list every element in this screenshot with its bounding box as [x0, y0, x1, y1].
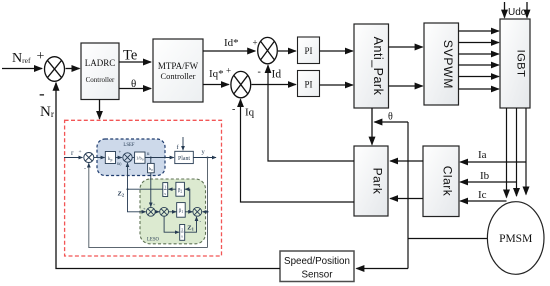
block b0: [148, 163, 155, 172]
wire PI2 to Anti_Park: [320, 84, 353, 86]
svg-text:Controller: Controller: [161, 71, 196, 81]
svg-text:Udc: Udc: [508, 7, 526, 18]
block Speed/Position Sensor: [280, 251, 354, 282]
svg-text:Nref: Nref: [12, 51, 31, 66]
wire L2 down to integrator z1: [164, 216, 179, 232]
wire summing junction C to PI2: [252, 84, 296, 86]
wire LADRC Te output to MTPA: [119, 61, 151, 63]
svg-text:+: +: [37, 49, 45, 64]
svg-text:Ia: Ia: [478, 149, 487, 161]
svg-text:-: -: [84, 166, 86, 172]
svg-text:r: r: [71, 148, 74, 157]
block Clark: [423, 146, 459, 217]
svg-text:Te: Te: [123, 48, 137, 64]
motor PMSM: [487, 202, 544, 275]
wire theta feedback arrow: [374, 121, 408, 123]
wire z2 from integrator to LSEF and L1: [128, 163, 163, 189]
wire A to LADRC: [66, 68, 80, 70]
summing junction L3: [193, 207, 202, 216]
block kp: [105, 152, 115, 164]
svg-text:PI: PI: [304, 80, 312, 90]
junction dot at y branch: [207, 157, 209, 159]
wire Udc right arrow into IGBT: [526, 2, 528, 18]
wire L1 to L2: [155, 211, 159, 213]
svg-text:SVPWM: SVPWM: [441, 40, 455, 89]
summing junction B: [258, 37, 278, 63]
wire Clark to Park lower: [390, 198, 423, 200]
wire into Speed/Position Sensor: [356, 268, 408, 270]
svg-text:Iq: Iq: [245, 107, 255, 119]
svg-text:Plant: Plant: [178, 156, 190, 162]
wire Clark to Park upper: [390, 160, 423, 162]
node Udc label: [508, 7, 526, 18]
wire PMSM shaft line: [408, 238, 488, 240]
block Anti_Park: [354, 24, 389, 108]
junction dot y line at L3 row: [207, 211, 209, 213]
wire MTPA Iq* output to summing junction C: [203, 84, 229, 86]
svg-text:Id: Id: [272, 69, 282, 81]
block MTPA/FW Controller: [153, 39, 203, 102]
svg-text:1/b0: 1/b0: [136, 156, 144, 162]
wire IGBT phase b down to PMSM: [516, 108, 518, 196]
svg-text:Iq*: Iq*: [209, 68, 224, 80]
svg-text:LSEF: LSEF: [123, 143, 135, 148]
wire y into L3: [203, 211, 208, 213]
junction dot z2 branch: [127, 188, 129, 190]
svg-text:PI: PI: [304, 46, 312, 56]
svg-text:Anti_Park: Anti_Park: [371, 37, 385, 96]
wire bottom feedback to S1: [89, 163, 208, 247]
svg-text:-: -: [129, 168, 131, 174]
wire S2 to 1/b0: [132, 157, 134, 159]
block LADRC Controller: [81, 43, 119, 100]
wire SVPWM to IGBT line 4: [459, 64, 499, 66]
wire theta vertical from PMSM line: [407, 122, 409, 269]
wire SVPWM to IGBT line 6: [459, 88, 499, 90]
wire z1 up into L3: [185, 217, 197, 232]
block PI2: [298, 71, 320, 97]
junction dot at beta1 output: [189, 211, 191, 213]
block LSEF dashed group: [97, 139, 165, 176]
wire MTPA Id* output to summing junction B: [203, 50, 255, 52]
wire IGBT phase a down to PMSM: [506, 108, 508, 198]
wire S1 to kp: [94, 157, 105, 159]
block integrator 1/s top: [163, 183, 168, 197]
svg-text:Z2: Z2: [118, 191, 125, 198]
wire z2 down into L1: [128, 189, 146, 212]
node Nr label: [40, 104, 55, 120]
wire beta1 to L3: [185, 211, 192, 213]
svg-text:LADRC: LADRC: [85, 58, 116, 68]
wire SVPWM to IGBT line 1: [459, 30, 499, 32]
wire from middle row up into beta2: [185, 189, 190, 212]
svg-text:+: +: [153, 202, 156, 207]
block Plant: [175, 151, 194, 163]
summing junction S1: [84, 153, 94, 163]
wire PI1 to Anti_Park: [320, 50, 353, 52]
svg-text:Clark: Clark: [441, 166, 455, 197]
svg-text:MTPA/FW: MTPA/FW: [158, 61, 199, 71]
svg-text:Nr: Nr: [40, 104, 55, 120]
wire u to Plant: [145, 157, 174, 159]
wire Nref input arrow: [2, 68, 42, 70]
svg-text:+: +: [253, 38, 258, 48]
block PI1: [298, 37, 320, 64]
svg-text:kp: kp: [108, 157, 113, 162]
junction dot at u branch: [150, 157, 152, 159]
wire f disturbance into Plant: [182, 137, 184, 150]
wire Udc left arrow into IGBT: [504, 2, 506, 18]
svg-text:+: +: [119, 151, 122, 156]
dashed LADRC detail boundary: [65, 120, 222, 256]
svg-text:+: +: [226, 66, 231, 76]
wire b0 down into LESO L1: [150, 173, 152, 207]
wire u down to b0: [150, 158, 152, 164]
block beta1: [177, 203, 186, 218]
svg-text:Ib: Ib: [480, 170, 490, 182]
svg-text:1: 1: [181, 227, 183, 232]
svg-text:Z1: Z1: [187, 225, 194, 232]
block LESO dashed group: [140, 179, 206, 244]
svg-text:β1: β1: [179, 209, 184, 214]
svg-text:Id*: Id*: [224, 37, 239, 49]
svg-text:y: y: [202, 149, 206, 156]
svg-text:-: -: [232, 104, 235, 115]
wire SVPWM to IGBT line 5: [459, 76, 499, 78]
svg-text:Ic: Ic: [478, 189, 487, 201]
summing junction S2: [123, 153, 132, 162]
summing junction L1: [146, 207, 155, 216]
wire SVPWM to IGBT line 2: [459, 42, 499, 44]
block beta2: [176, 182, 185, 196]
block Park: [354, 146, 388, 216]
block SVPWM: [424, 23, 459, 105]
svg-text:LESO: LESO: [147, 238, 160, 243]
wire summing junction B to PI1: [278, 50, 296, 52]
summing junction A: [45, 57, 65, 82]
wire beta2 to integrator: [168, 188, 176, 190]
svg-text:f: f: [177, 144, 180, 151]
svg-text:-: -: [258, 67, 261, 78]
wire r input: [64, 157, 83, 159]
wire IGBT phase c down to PMSM: [525, 108, 527, 195]
wire Ic tap to Clark: [460, 200, 506, 202]
svg-text:b0: b0: [149, 166, 153, 172]
block integrator 1/s bottom: [180, 225, 185, 241]
wire kp to S2: [116, 157, 122, 159]
wire Anti_Park down to Park theta input: [371, 108, 373, 145]
svg-text:-: -: [39, 84, 45, 103]
block 1/b0: [135, 152, 145, 163]
svg-text:PMSM: PMSM: [499, 233, 532, 245]
svg-text:+: +: [79, 149, 82, 155]
wire Plant output y: [193, 157, 216, 159]
summing junction L2: [160, 207, 169, 216]
svg-text:Sensor: Sensor: [301, 270, 333, 281]
svg-text:IGBT: IGBT: [515, 50, 527, 78]
wire Anti_Park to SVPWM lower: [389, 85, 423, 87]
wire Anti_Park to SVPWM upper: [389, 46, 423, 48]
svg-text:Park: Park: [371, 168, 385, 195]
wire LADRC down to dashed detail box: [99, 100, 101, 119]
node Nref label: [12, 51, 31, 66]
wire SVPWM to IGBT line 3: [459, 53, 499, 55]
wire y down right side: [207, 158, 209, 248]
svg-text:β2: β2: [178, 189, 183, 194]
wire Park Iq output feedback to summing junction C: [241, 99, 355, 202]
svg-text:Controller: Controller: [86, 76, 115, 84]
wire Ia tap to Clark: [460, 161, 526, 163]
wire LADRC theta output to MTPA: [119, 88, 151, 90]
wire L2 to beta1: [169, 211, 177, 213]
summing junction C: [231, 71, 251, 97]
wire sensor output Nr feedback: [56, 83, 280, 269]
svg-text:u: u: [147, 151, 150, 157]
svg-text:1: 1: [164, 185, 166, 190]
wire Park Id output feedback to summing junction B: [268, 65, 354, 161]
svg-text:Speed/Position: Speed/Position: [284, 256, 350, 267]
svg-text:θ: θ: [388, 112, 393, 123]
svg-text:u0: u0: [117, 162, 122, 167]
block IGBT: [500, 19, 530, 108]
wire Ib tap to Clark: [460, 181, 516, 183]
